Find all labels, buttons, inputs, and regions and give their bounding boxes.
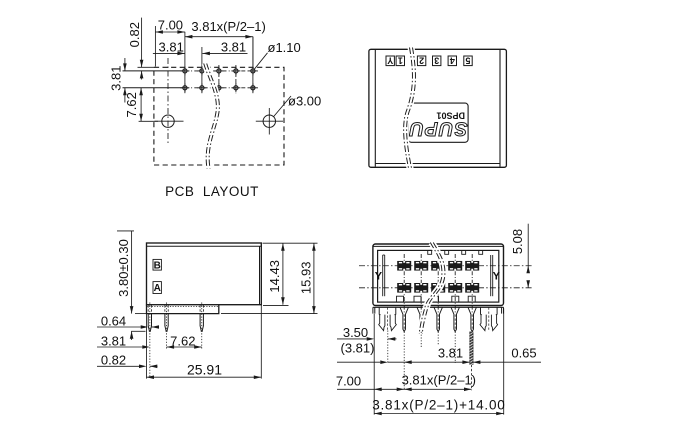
label o3.00 with leader <box>274 96 291 117</box>
svg-text:3.80±0.30: 3.80±0.30 <box>116 239 131 297</box>
svg-text:3.81: 3.81 <box>101 333 126 348</box>
right peg <box>480 308 482 315</box>
svg-text:4: 4 <box>450 56 455 66</box>
svg-text:ø1.10: ø1.10 <box>268 40 301 55</box>
dimension 7.62 (pin to peg) <box>167 346 202 348</box>
label o1.10 with leader <box>254 53 267 70</box>
front view bottom wall slots <box>397 296 404 302</box>
top view right inner wall line <box>499 50 501 167</box>
front view corner posts <box>372 307 374 313</box>
position number boxes Y 1 2 3 4 5 (rotated 180) <box>386 56 394 66</box>
pin holes o1.10 (2 rows x 5) <box>183 69 187 73</box>
top view bottom inner wall line <box>375 163 500 165</box>
marking box B <box>153 259 161 270</box>
side pin row B lead <box>148 314 151 332</box>
svg-text:0.82: 0.82 <box>127 22 142 47</box>
dimension 3.81x(P/2-1)+14.00 (total width) <box>374 413 504 415</box>
dimension 3.81x(P/2-1) (pin span) <box>252 37 254 66</box>
pin hole columns - vertical centerlines <box>184 32 186 93</box>
logo box <box>408 103 468 142</box>
svg-text:25.91: 25.91 <box>187 361 222 377</box>
svg-text:5: 5 <box>465 56 470 66</box>
svg-text:3.50: 3.50 <box>343 325 368 340</box>
row centerlines (dash-dot) <box>359 265 533 267</box>
svg-text:15.93: 15.93 <box>299 262 314 295</box>
hatched extension band at last column (0.65) <box>470 332 474 365</box>
dimension 3.81 vertical (row pitch, rotated) <box>124 58 126 71</box>
dimension 5.08 (row spacing, rotated) <box>527 224 529 266</box>
break wave in PCB view (white mask) <box>205 64 218 169</box>
break wave in PCB view (double wavy line) <box>204 64 217 169</box>
top view left inner wall line <box>374 50 376 167</box>
side view standoff base <box>147 305 219 314</box>
svg-text:7.00: 7.00 <box>158 17 183 32</box>
break wave in top view (white mask) <box>405 48 414 170</box>
front view rim line top <box>374 245 504 247</box>
svg-text:3.81x(P/2–1): 3.81x(P/2–1) <box>191 19 265 34</box>
svg-text:2: 2 <box>419 56 424 66</box>
svg-text:Y: Y <box>387 56 393 66</box>
front view bottom line <box>373 306 504 308</box>
front view key slot right <box>490 255 492 296</box>
side mounting peg <box>200 314 203 332</box>
svg-text:3: 3 <box>434 56 439 66</box>
PCB row 2 centerline <box>123 87 185 89</box>
svg-text:7.62: 7.62 <box>170 333 195 348</box>
dimension 0.82 (edge to row, rotated) <box>141 18 143 68</box>
extension lines below front view <box>373 314 375 415</box>
mounting hole right o3.00 with crosshair <box>263 115 275 127</box>
side view: body outline <box>147 243 262 305</box>
svg-text:3.81x(P/2–1): 3.81x(P/2–1) <box>402 372 476 387</box>
dimension line row: (3.81), 3.81, 0.65 <box>337 361 380 363</box>
svg-text:(3.81): (3.81) <box>341 340 375 355</box>
svg-text:0.65: 0.65 <box>511 346 536 361</box>
svg-text:3.81: 3.81 <box>438 346 463 361</box>
side pin centerlines <box>149 303 151 378</box>
dimension 14.43 (body height, rotated) <box>263 242 318 244</box>
svg-text:Y: Y <box>375 271 383 283</box>
svg-text:ø3.00: ø3.00 <box>288 94 321 109</box>
svg-text:3.81x(P/2–1)+14.00: 3.81x(P/2–1)+14.00 <box>372 397 505 412</box>
svg-text:7.62: 7.62 <box>124 92 139 117</box>
dimension 3.81 left (pin pitch) <box>153 52 185 54</box>
left peg <box>378 308 380 315</box>
dimension 3.81 right (pin pitch) <box>202 52 247 54</box>
side pin row A lead <box>165 314 168 332</box>
break wave in top view (double wavy line) <box>404 48 413 170</box>
column centerlines (dash-dot) <box>403 254 405 313</box>
dimension 25.91 (body width) <box>146 314 148 379</box>
top view: connector body outline <box>369 49 507 167</box>
svg-text:5.08: 5.08 <box>510 229 525 254</box>
PCB layout view: board outline (dashed) <box>154 67 284 165</box>
marking box A <box>153 282 161 294</box>
svg-text:B: B <box>154 260 161 271</box>
front view key slot left <box>382 255 384 296</box>
side view top inner line <box>147 245 262 247</box>
svg-text:SUPU: SUPU <box>409 118 468 140</box>
svg-text:3.81: 3.81 <box>221 40 246 55</box>
solder tails <box>400 307 408 331</box>
front view cavity <box>378 250 499 302</box>
svg-text:0.82: 0.82 <box>101 353 126 368</box>
svg-text:3.81: 3.81 <box>109 66 124 91</box>
svg-text:14.43: 14.43 <box>267 260 282 293</box>
mounting hole left o3.00 with crosshair <box>162 115 174 127</box>
dimension 7.00 (edge to first pin) <box>154 26 156 67</box>
svg-text:3.81: 3.81 <box>159 40 184 55</box>
svg-text:A: A <box>154 283 161 294</box>
svg-text:1: 1 <box>398 56 403 66</box>
svg-text:0.64: 0.64 <box>101 313 126 328</box>
break wave front view (double wavy line) <box>419 243 442 335</box>
PCB row 1 centerline <box>123 70 185 72</box>
svg-text:7.00: 7.00 <box>336 373 361 388</box>
front view top wall slots <box>428 251 432 255</box>
svg-text:PCB LAYOUT: PCB LAYOUT <box>165 184 259 199</box>
contact units (2 rows x 5) <box>397 261 411 271</box>
break wave front view (white mask) <box>421 243 444 335</box>
side view right inner line <box>259 246 261 305</box>
svg-text:Y: Y <box>493 271 501 283</box>
dimension 7.62 vertical (row to hole, rotated) <box>140 88 142 122</box>
dimension 15.93 (total height, rotated) <box>221 313 318 315</box>
dimension 3.80+-0.30 (pin protrusion, rotated) <box>117 230 134 232</box>
side view base dotted line <box>147 305 219 307</box>
front view: shroud outline <box>373 244 504 306</box>
